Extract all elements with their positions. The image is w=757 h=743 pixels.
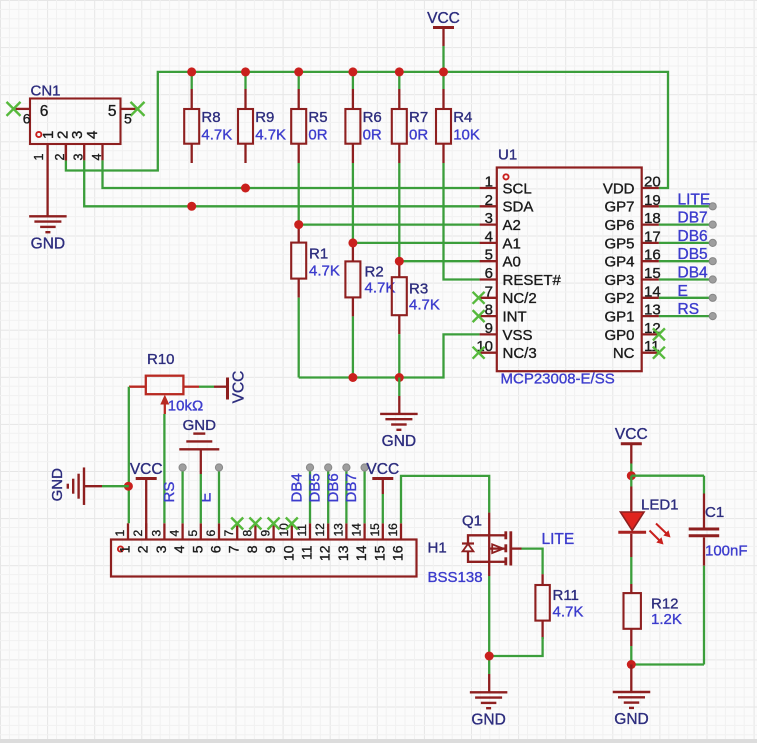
svg-text:4.7K: 4.7K xyxy=(309,263,340,280)
svg-text:E: E xyxy=(678,283,688,300)
svg-text:R11: R11 xyxy=(553,587,579,604)
svg-text:RS: RS xyxy=(678,301,700,318)
svg-text:15: 15 xyxy=(368,523,382,537)
svg-text:NC/3: NC/3 xyxy=(503,345,537,362)
svg-text:19: 19 xyxy=(644,192,661,209)
svg-text:2: 2 xyxy=(135,545,151,553)
svg-text:4.7K: 4.7K xyxy=(409,297,440,314)
svg-text:5: 5 xyxy=(186,530,200,537)
svg-text:10kΩ: 10kΩ xyxy=(168,397,203,414)
svg-text:SDA: SDA xyxy=(503,199,534,216)
svg-text:1.2K: 1.2K xyxy=(651,611,682,628)
svg-text:GP3: GP3 xyxy=(604,272,634,289)
svg-text:4: 4 xyxy=(90,154,104,161)
svg-text:1: 1 xyxy=(117,545,133,553)
svg-text:5: 5 xyxy=(124,111,132,127)
svg-text:4.7K: 4.7K xyxy=(255,126,286,143)
svg-text:13: 13 xyxy=(335,545,351,561)
svg-text:13: 13 xyxy=(331,523,345,537)
svg-text:9: 9 xyxy=(485,320,493,337)
svg-text:R7: R7 xyxy=(409,109,428,126)
svg-text:A2: A2 xyxy=(503,217,521,234)
svg-text:5: 5 xyxy=(189,545,205,553)
svg-text:16: 16 xyxy=(386,523,400,537)
svg-text:DB4: DB4 xyxy=(289,473,306,502)
svg-text:0R: 0R xyxy=(409,126,428,143)
svg-text:18: 18 xyxy=(644,210,661,227)
svg-text:13: 13 xyxy=(644,302,661,319)
svg-text:14: 14 xyxy=(350,523,364,537)
svg-text:14: 14 xyxy=(353,545,369,561)
svg-text:NC/2: NC/2 xyxy=(503,290,537,307)
svg-text:R12: R12 xyxy=(651,596,679,613)
svg-text:R2: R2 xyxy=(365,264,384,281)
svg-text:17: 17 xyxy=(644,228,661,245)
svg-text:15: 15 xyxy=(371,545,387,561)
svg-text:R1: R1 xyxy=(309,246,328,263)
svg-text:GND: GND xyxy=(471,712,505,729)
svg-text:3: 3 xyxy=(485,210,493,227)
svg-text:A0: A0 xyxy=(503,254,521,271)
svg-text:1: 1 xyxy=(113,530,127,537)
svg-text:4.7K: 4.7K xyxy=(553,604,584,621)
svg-text:0R: 0R xyxy=(308,126,327,143)
svg-text:4.7K: 4.7K xyxy=(365,280,396,297)
svg-text:100nF: 100nF xyxy=(705,543,748,560)
svg-text:9: 9 xyxy=(259,530,273,537)
svg-text:4: 4 xyxy=(168,530,182,537)
svg-text:GP2: GP2 xyxy=(604,290,634,307)
svg-text:7: 7 xyxy=(485,283,493,300)
svg-text:DB7: DB7 xyxy=(678,210,708,227)
svg-text:8: 8 xyxy=(240,530,254,537)
svg-text:8: 8 xyxy=(244,545,260,553)
svg-text:14: 14 xyxy=(644,283,661,300)
svg-text:DB5: DB5 xyxy=(307,473,324,502)
svg-text:7: 7 xyxy=(222,530,236,537)
svg-text:R8: R8 xyxy=(201,109,220,126)
svg-text:12: 12 xyxy=(317,545,333,561)
svg-text:6: 6 xyxy=(23,111,31,127)
svg-text:VSS: VSS xyxy=(503,327,533,344)
svg-text:2: 2 xyxy=(485,192,493,209)
svg-text:0R: 0R xyxy=(363,126,382,143)
svg-text:11: 11 xyxy=(299,545,315,560)
svg-text:VCC: VCC xyxy=(615,426,648,443)
svg-text:DB5: DB5 xyxy=(678,246,708,263)
svg-text:16: 16 xyxy=(644,247,661,264)
svg-text:GP1: GP1 xyxy=(604,309,634,326)
svg-text:VCC: VCC xyxy=(231,371,248,404)
svg-text:RS: RS xyxy=(161,482,178,503)
svg-text:GND: GND xyxy=(183,417,217,434)
svg-text:6: 6 xyxy=(40,103,49,120)
svg-text:15: 15 xyxy=(644,265,661,282)
svg-text:3: 3 xyxy=(72,154,86,161)
svg-text:LITE: LITE xyxy=(542,531,575,548)
svg-text:GP5: GP5 xyxy=(604,235,634,252)
svg-text:GP6: GP6 xyxy=(604,217,634,234)
svg-text:VCC: VCC xyxy=(366,461,399,478)
svg-text:GND: GND xyxy=(49,468,66,502)
svg-text:7: 7 xyxy=(226,545,242,553)
svg-text:R9: R9 xyxy=(255,109,274,126)
svg-text:8: 8 xyxy=(485,302,493,319)
svg-text:3: 3 xyxy=(153,545,169,553)
svg-text:6: 6 xyxy=(208,545,224,553)
svg-text:6: 6 xyxy=(204,530,218,537)
svg-text:VDD: VDD xyxy=(603,180,635,197)
svg-text:U1: U1 xyxy=(498,147,517,164)
svg-text:10: 10 xyxy=(280,545,296,561)
svg-text:R6: R6 xyxy=(363,109,382,126)
svg-text:CN1: CN1 xyxy=(31,83,61,100)
svg-text:MCP23008-E/SS: MCP23008-E/SS xyxy=(501,371,615,388)
svg-text:1: 1 xyxy=(32,154,46,161)
svg-text:LITE: LITE xyxy=(678,191,711,208)
svg-text:SCL: SCL xyxy=(503,180,532,197)
svg-text:NC: NC xyxy=(613,345,635,362)
svg-text:9: 9 xyxy=(262,545,278,553)
svg-text:5: 5 xyxy=(485,247,493,264)
svg-text:R10: R10 xyxy=(147,351,175,368)
svg-text:GP0: GP0 xyxy=(604,327,634,344)
svg-text:GND: GND xyxy=(382,433,416,450)
svg-text:4.7K: 4.7K xyxy=(201,126,232,143)
svg-text:3: 3 xyxy=(149,530,163,537)
svg-text:GP7: GP7 xyxy=(604,199,634,216)
svg-text:VCC: VCC xyxy=(427,10,460,27)
svg-text:H1: H1 xyxy=(428,540,447,557)
svg-text:GND: GND xyxy=(31,236,65,253)
svg-text:VCC: VCC xyxy=(130,461,163,478)
svg-text:GP4: GP4 xyxy=(604,254,634,271)
svg-text:DB7: DB7 xyxy=(343,473,360,502)
svg-text:4: 4 xyxy=(84,131,101,139)
svg-text:2: 2 xyxy=(131,530,145,537)
svg-text:20: 20 xyxy=(644,174,661,191)
svg-text:1: 1 xyxy=(485,174,493,191)
svg-text:DB6: DB6 xyxy=(325,473,342,502)
svg-text:BSS138: BSS138 xyxy=(428,569,483,586)
svg-text:LED1: LED1 xyxy=(641,497,679,514)
svg-text:INT: INT xyxy=(503,309,527,326)
svg-text:GND: GND xyxy=(614,711,648,728)
svg-text:R5: R5 xyxy=(308,109,327,126)
svg-text:DB6: DB6 xyxy=(678,228,708,245)
svg-text:RESET#: RESET# xyxy=(503,272,562,289)
svg-text:Q1: Q1 xyxy=(462,513,482,530)
svg-text:10K: 10K xyxy=(453,126,480,143)
svg-text:5: 5 xyxy=(108,103,117,120)
svg-text:4: 4 xyxy=(485,228,493,245)
svg-text:6: 6 xyxy=(485,265,493,282)
svg-text:R4: R4 xyxy=(453,109,472,126)
svg-text:12: 12 xyxy=(313,523,327,537)
svg-text:DB4: DB4 xyxy=(678,265,709,282)
svg-text:A1: A1 xyxy=(503,235,521,252)
svg-text:16: 16 xyxy=(390,545,406,561)
svg-text:4: 4 xyxy=(171,545,187,553)
svg-text:C1: C1 xyxy=(705,504,724,521)
svg-text:R3: R3 xyxy=(409,281,428,298)
